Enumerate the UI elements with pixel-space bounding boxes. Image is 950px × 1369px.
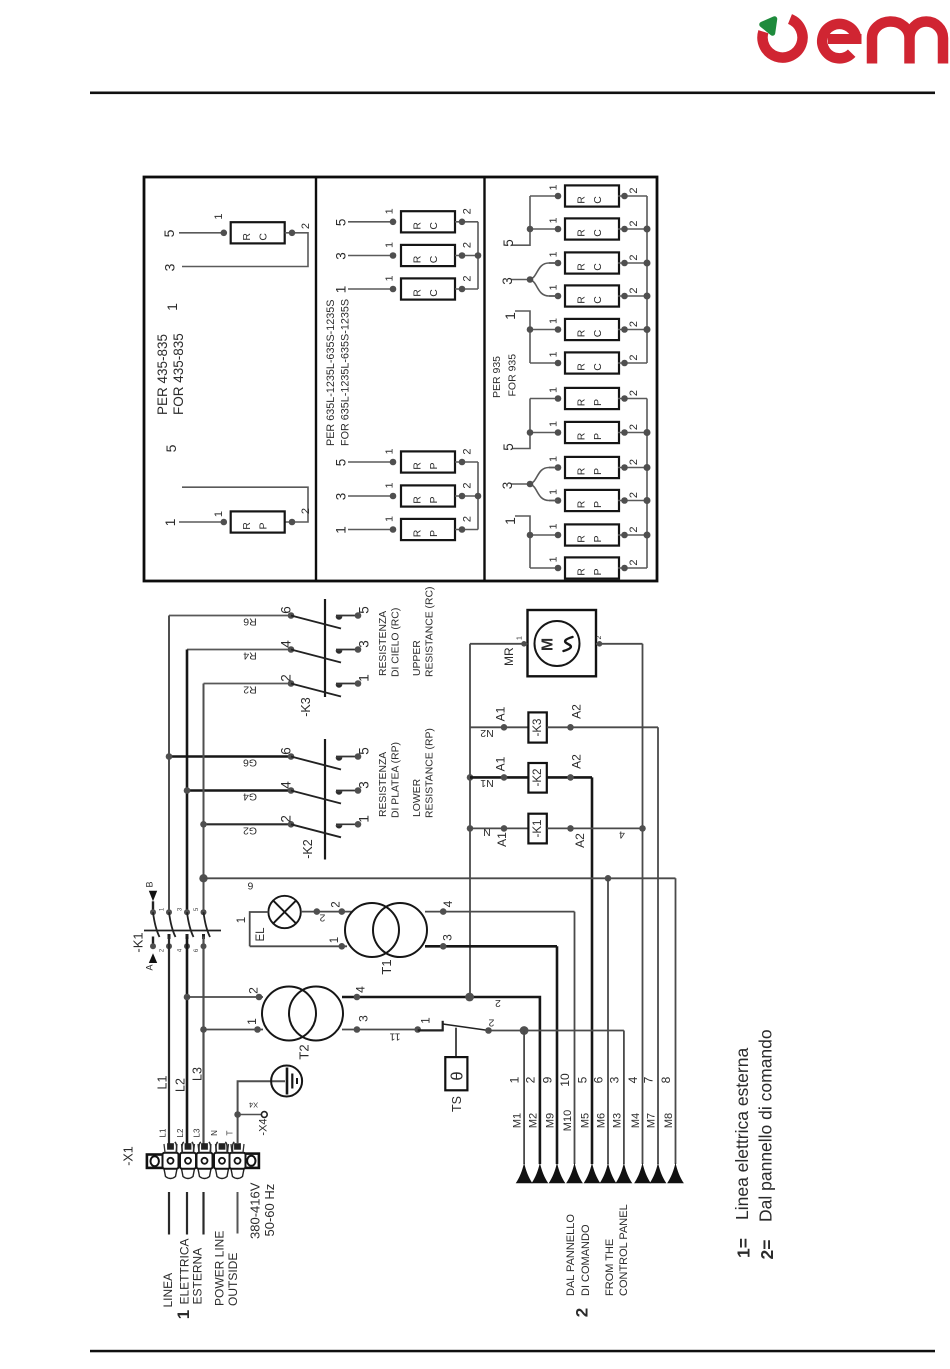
footer rule [90,1350,935,1353]
svg-text:1: 1 [384,448,396,454]
svg-text:2: 2 [628,492,640,498]
svg-text:A2: A2 [570,754,584,769]
svg-text:C: C [592,363,604,371]
contactor -K3 bar [324,599,326,697]
svg-text:1: 1 [384,208,396,214]
svg-text:-X4: -X4 [258,1118,270,1135]
svg-text:1: 1 [384,275,396,281]
svg-text:3: 3 [334,252,349,260]
svg-text:7: 7 [642,1076,656,1083]
panel1 wire 1 lower [179,521,224,523]
svg-text:1: 1 [548,456,560,462]
svg-text:R: R [576,432,588,440]
panel3 RP1 pin wires [530,398,558,400]
spare lug fork [192,1142,201,1153]
svg-text:1: 1 [236,917,248,923]
svg-text:T1: T1 [379,959,394,974]
svg-text:M5: M5 [580,1113,592,1128]
rail motor-2 / M4 [642,644,644,1164]
svg-text:G6: G6 [243,757,257,769]
svg-text:2: 2 [628,459,640,465]
panel2 RC2 output [455,255,478,257]
svg-text:1: 1 [508,1076,522,1083]
svg-text:2: 2 [495,997,501,1009]
svg-text:9: 9 [541,1076,555,1083]
svg-text:2: 2 [628,390,640,396]
svg-text:5: 5 [357,606,372,614]
svg-text:C: C [428,255,440,263]
resistor RC panel1 [231,222,285,243]
svg-text:R: R [576,263,588,271]
resistor RC1 panel2 [401,211,455,232]
svg-text:R: R [241,522,253,530]
svg-text:2: 2 [462,516,474,522]
rail L3 upper [203,684,205,913]
panel2 wire 5 upper [348,221,393,223]
svg-text:2: 2 [628,287,640,293]
spare lug fork [175,1142,184,1153]
svg-text:DI COMANDO: DI COMANDO [580,1224,592,1296]
panel3 node 5 lower [512,399,530,449]
svg-text:M10: M10 [562,1110,574,1131]
svg-text:2: 2 [628,187,640,193]
supply stubs below terminals [168,1192,170,1235]
svg-text:6: 6 [592,1076,606,1083]
svg-text:G2: G2 [243,824,257,836]
svg-text:1: 1 [384,516,396,522]
terminal block left end [147,1155,163,1168]
terminal T [231,1169,244,1179]
svg-text:2: 2 [596,635,603,639]
svg-text:B: B [145,881,155,887]
svg-text:-K1: -K1 [131,932,146,952]
svg-text:-K3: -K3 [532,719,544,737]
resistor RP1 panel3 [565,388,619,409]
resistor RP3 panel2 [401,519,455,540]
svg-text:2: 2 [300,508,312,514]
svg-text:P: P [592,501,604,508]
T2 wire pin2 [187,996,263,998]
svg-text:P: P [592,468,604,475]
panel3 RC3 pin wires [549,262,558,264]
contactor -K2 wires G6 G4 G2 [169,755,291,758]
svg-text:R: R [576,568,588,576]
panel3 RP2 pin wires [530,432,558,434]
wire 6 across [204,877,676,879]
contactor -K3 wires R6 R4 R2 [169,615,291,617]
rail K2-A2 / M5 [591,777,594,1164]
svg-text:R: R [412,462,424,470]
svg-text:1: 1 [548,217,560,223]
svg-text:R: R [241,233,253,241]
panel3 RC6 pin wires [530,362,558,364]
panel3 node 1 upper [515,311,530,363]
svg-text:R: R [576,229,588,237]
svg-text:PER 635L-1235L-635S-1235S: PER 635L-1235L-635S-1235S [325,300,337,446]
panel3 RP3 pin wires [549,467,558,469]
svg-text:R: R [576,535,588,543]
svg-text:2: 2 [462,242,474,248]
rail M6 [607,878,609,1164]
OEM logo red o [763,19,803,58]
header rule [90,92,935,95]
svg-text:-K2: -K2 [301,839,315,859]
svg-text:N: N [210,1130,219,1136]
rail L3 lower [202,937,204,1145]
svg-text:1: 1 [503,517,518,525]
breaker -K1 pole L1 [166,909,172,915]
panel2 wire 1 lower [348,529,393,531]
svg-text:A1: A1 [494,706,508,721]
svg-text:R: R [576,500,588,508]
svg-text:6: 6 [279,747,294,755]
svg-text:3: 3 [357,1015,371,1022]
svg-text:DAL PANNELLO: DAL PANNELLO [565,1214,577,1296]
panel3 node 3 lower Y [511,468,558,501]
svg-text:P: P [592,433,604,440]
panel2 wire 3 upper [348,255,393,257]
svg-text:4: 4 [626,1076,640,1083]
svg-text:1: 1 [548,523,560,529]
panel3 RP right bus [646,399,648,569]
svg-text:3: 3 [334,493,349,501]
svg-text:R: R [576,196,588,204]
panel3 RC2 pin wires [530,228,558,230]
panel2 RC bus [477,222,479,289]
svg-text:R: R [412,529,424,537]
svg-text:3: 3 [500,482,515,490]
terminal block right end [244,1154,259,1168]
svg-text:1: 1 [548,556,560,562]
panel1 RC output wire to 3 [182,233,308,267]
svg-text:2: 2 [628,321,640,327]
breaker -K1 linkage bar [144,930,221,932]
panel3 RC5 pin wires [530,329,558,331]
-K2 contact 6-5 [288,753,295,760]
svg-text:1: 1 [548,251,560,257]
svg-text:-X1: -X1 [122,1146,136,1166]
breaker -K1 pole L2 [184,909,190,915]
options box divider 2 [483,177,485,581]
panel3 RC1 pin wires [530,195,558,197]
svg-text:CONTROL PANEL: CONTROL PANEL [618,1204,630,1296]
svg-text:LOWER: LOWER [412,778,423,817]
svg-text:1: 1 [213,213,225,219]
resistor RP4 panel3 [565,490,619,511]
svg-text:N2: N2 [480,727,494,739]
T1 wire pin1 [250,945,347,947]
svg-text:Dal pannello di comando: Dal pannello di comando [756,1029,776,1222]
terminal L3 [198,1169,211,1179]
svg-text:MR: MR [502,647,516,666]
svg-text:R: R [576,363,588,371]
svg-text:Linea elettrica esterna: Linea elettrica esterna [732,1048,752,1220]
svg-text:3: 3 [607,1076,621,1083]
PE earth symbol [271,1066,302,1097]
OEM logo red m [872,22,943,64]
svg-text:5: 5 [576,1076,590,1083]
svg-text:2=: 2= [757,1240,777,1260]
panel3 RP6 pin wires [530,567,558,569]
svg-text:2: 2 [628,424,640,430]
T1 wire pin4 / M10 [425,911,575,913]
svg-text:M1: M1 [512,1113,524,1128]
svg-text:1: 1 [548,489,560,495]
svg-text:P: P [592,568,604,575]
-K3 contact 6-5 [288,612,295,619]
panel2 RP2 output [455,495,478,497]
svg-text:C: C [592,196,604,204]
svg-text:N: N [483,826,491,838]
svg-text:1: 1 [245,1018,259,1025]
resistor RP2 panel3 [565,422,619,443]
svg-text:T: T [226,1130,235,1135]
OEM logo red e [822,24,856,58]
svg-text:P: P [258,522,270,529]
svg-text:2: 2 [279,815,294,823]
svg-text:FOR 935: FOR 935 [507,354,519,397]
svg-text:1: 1 [357,815,372,823]
svg-text:4: 4 [354,986,368,993]
svg-text:M7: M7 [646,1113,658,1128]
svg-text:FOR 435-835: FOR 435-835 [171,333,186,415]
svg-text:3: 3 [441,934,455,941]
svg-text:6: 6 [247,880,253,892]
svg-text:1: 1 [384,482,396,488]
svg-text:L1: L1 [156,1076,170,1090]
thermostat TS body [455,1028,457,1057]
svg-text:A1: A1 [495,832,509,847]
svg-text:RESISTENZA: RESISTENZA [378,611,389,676]
lamp EL [268,896,300,928]
coil -K1 [470,827,528,829]
svg-text:1: 1 [174,1310,193,1319]
svg-text:A2: A2 [570,704,584,719]
svg-text:ESTERNA: ESTERNA [191,1248,205,1305]
svg-text:M6: M6 [596,1113,608,1128]
resistor RC3 panel2 [401,278,455,299]
svg-text:1: 1 [503,312,518,320]
svg-text:1: 1 [548,284,560,290]
svg-text:1: 1 [329,937,341,943]
svg-text:R: R [576,296,588,304]
panel2 RC1 output [455,221,478,223]
transformer T1 [345,903,399,957]
svg-text:1: 1 [164,303,180,311]
svg-text:2: 2 [462,482,474,488]
svg-text:R: R [412,222,424,230]
resistor RC1 panel3 [565,185,619,206]
rail L2 lower [186,937,189,1145]
transformer T2 [262,987,316,1041]
svg-text:DI CIELO (RC): DI CIELO (RC) [391,608,402,677]
svg-text:4: 4 [279,781,294,789]
thermostat contact 11 [414,1026,421,1033]
T2 wire pin4 / wire 2 / M2 [342,997,540,1164]
svg-text:EL: EL [255,927,267,942]
terminal N [216,1169,229,1179]
OEM logo green triangle [762,19,775,33]
rail L1 lower [168,937,170,1145]
lamp EL wire pin2 / T1 pin2 [301,911,353,913]
panel3 node 3 upper Y [511,263,558,296]
rail L1 upper [168,616,170,913]
svg-text:2: 2 [628,526,640,532]
svg-text:1: 1 [384,242,396,248]
rail M8 [675,878,677,1164]
-K2 contact 4-3 [288,787,295,794]
resistor RP5 panel3 [565,524,619,545]
svg-text:L1: L1 [159,1128,168,1137]
svg-text:4: 4 [441,900,455,907]
panel3 RC right bus [646,196,648,363]
svg-text:2: 2 [628,559,640,565]
svg-text:TS: TS [450,1096,464,1112]
panel3 RP4 pin wires [549,500,558,502]
svg-text:R: R [412,289,424,297]
svg-text:R4: R4 [243,650,257,662]
svg-text:-K2: -K2 [532,769,544,787]
svg-text:FROM THE: FROM THE [604,1239,616,1296]
svg-text:2: 2 [523,1076,537,1083]
svg-text:1: 1 [421,1017,433,1023]
resistor RP3 panel3 [565,457,619,478]
panel1 wire 5 [179,232,224,234]
svg-text:DI PLATEA (RP): DI PLATEA (RP) [391,742,402,818]
svg-text:M8: M8 [663,1113,675,1128]
svg-text:R6: R6 [243,616,257,628]
terminal L1 [164,1169,177,1179]
svg-text:M2: M2 [527,1113,539,1128]
svg-text:R2: R2 [243,684,257,696]
T1 wire pin3 / M9 [425,945,557,948]
svg-text:M4: M4 [630,1113,642,1128]
PE wire [238,1081,285,1143]
svg-text:RESISTENZA: RESISTENZA [378,752,389,817]
coil -K3 [470,726,528,728]
svg-text:-K3: -K3 [299,697,313,717]
svg-text:M3: M3 [611,1113,623,1128]
svg-text:1: 1 [548,318,560,324]
motor wire pin2 [596,643,643,645]
panel2 RP1 output [455,461,478,463]
motor MR box [528,610,597,676]
panel2 RP3 output [455,529,478,531]
svg-text:4: 4 [619,829,625,841]
svg-text:C: C [428,289,440,297]
svg-text:5: 5 [501,239,516,247]
-K2 contact 2-1 [288,821,295,828]
svg-text:1: 1 [334,286,349,294]
svg-text:1: 1 [357,674,372,682]
svg-text:-K1: -K1 [532,820,544,838]
svg-text:C: C [592,329,604,337]
svg-text:T2: T2 [297,1044,312,1059]
rail K3-A2 / M7 [657,727,659,1164]
svg-text:L2: L2 [176,1128,185,1137]
svg-text:1: 1 [162,518,178,526]
svg-text:3: 3 [500,277,515,285]
svg-text:5: 5 [357,747,372,755]
breaker -K1 pole L3 [201,909,207,915]
spare lug fork [209,1142,218,1153]
svg-text:C: C [258,233,270,241]
panel3 RC4 pin wires [549,295,558,297]
svg-text:2: 2 [300,223,312,229]
TS output wire / M1 M3 [489,1030,624,1032]
svg-text:1: 1 [548,351,560,357]
coil -K2 [470,776,528,779]
-K3 contact 4-3 [288,646,295,653]
resistor RC6 panel3 [565,352,619,373]
svg-text:2: 2 [331,901,343,907]
resistor RC5 panel3 [565,319,619,340]
svg-text:M9: M9 [545,1113,557,1128]
svg-text:2: 2 [247,987,261,994]
panel1 wire 3 lower [182,487,308,522]
svg-text:1: 1 [517,636,524,640]
svg-text:LINEA: LINEA [161,1273,175,1308]
panel2 RP bus [477,462,479,530]
svg-text:M: M [540,638,557,651]
svg-text:2: 2 [628,254,640,260]
svg-text:G4: G4 [243,791,257,803]
svg-text:2: 2 [628,354,640,360]
svg-text:UPPER: UPPER [412,640,423,676]
svg-text:P: P [592,399,604,406]
terminal L2 [182,1169,195,1179]
svg-text:1: 1 [334,526,349,534]
motor MR circle [535,621,580,666]
svg-text:A1: A1 [494,756,508,771]
panel2 RC3 output [455,288,478,290]
connector -X4 [234,1111,241,1118]
spare lug fork [225,1142,234,1153]
svg-text:C: C [592,229,604,237]
svg-text:RESISTANCE (RC): RESISTANCE (RC) [425,587,436,677]
svg-text:5: 5 [334,219,349,227]
svg-text:R: R [576,398,588,406]
svg-text:6: 6 [279,606,294,614]
resistor RP2 panel2 [401,485,455,506]
svg-text:50-60 Hz: 50-60 Hz [262,1184,277,1237]
svg-text:5: 5 [334,459,349,467]
svg-text:380-416V: 380-416V [248,1182,263,1239]
svg-text:2: 2 [462,448,474,454]
panel3 node 5 upper [512,196,530,245]
svg-text:RESISTANCE (RP): RESISTANCE (RP) [425,728,436,818]
svg-text:5: 5 [161,229,177,237]
svg-text:N1: N1 [480,777,494,789]
rail L2 upper [186,650,189,913]
svg-text:3: 3 [357,640,372,648]
svg-text:1: 1 [548,387,560,393]
svg-text:3: 3 [162,263,178,271]
svg-text:2: 2 [462,275,474,281]
resistor RP1 panel2 [401,451,455,472]
svg-text:8: 8 [659,1076,673,1083]
resistor RP6 panel3 [565,557,619,578]
panel2 wire 5 lower [348,461,393,463]
options box frame [144,177,657,581]
lamp EL wire pin1 [250,912,269,946]
resistor RC2 panel2 [401,245,455,266]
svg-text:θ: θ [449,1071,467,1080]
panel2 wire 1 upper [348,288,393,290]
T2 wire pin3 [342,1029,418,1031]
resistor RC4 panel3 [565,285,619,306]
breaker -K1 mech arrow A [152,937,154,947]
